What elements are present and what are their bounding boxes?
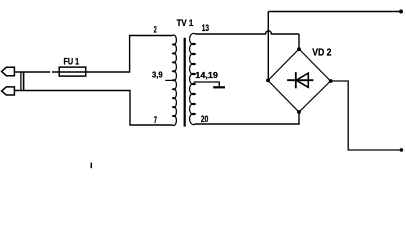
wire fuse to transformer corner [86, 36, 130, 73]
wire pin13 drop to bridge top [298, 34, 300, 49]
bridge rectifier VD2 diamond [268, 49, 331, 112]
wire bridge left corner up to top rail [267, 12, 269, 81]
svg-text:20: 20 [201, 114, 208, 124]
caption mark I [90, 163, 92, 169]
svg-text:FU 1: FU 1 [64, 57, 80, 67]
wire pin 13 with hop over DC rail [195, 31, 299, 34]
top rail to plus terminal [268, 11, 400, 13]
tap 14,19 wire to ground [194, 82, 220, 86]
junction dot left [266, 79, 270, 83]
tap 3,9 stub [165, 79, 173, 81]
wire pin 2 [129, 35, 173, 37]
junction dot bottom [297, 110, 301, 114]
junction dot top [297, 47, 301, 51]
wire pin 20 to bridge bottom [195, 112, 299, 124]
wire pin 7 [129, 124, 172, 126]
junction dot right [329, 79, 333, 83]
svg-text:TV 1: TV 1 [177, 17, 194, 28]
connector X1 top pin [2, 67, 15, 75]
wire bridge right corner to lower terminal [331, 81, 400, 150]
terminal dot bottom right [400, 148, 404, 152]
svg-text:7: 7 [154, 115, 157, 125]
transformer TV1 primary winding [173, 35, 177, 126]
svg-text:14,19: 14,19 [195, 71, 218, 80]
wire (after small gap) into fuse [52, 71, 86, 73]
connector X1 body bar 1 [20, 72, 22, 91]
diode symbol horizontal lead [287, 79, 313, 81]
terminal dot top right [399, 10, 403, 14]
fuse FU1 body [59, 67, 85, 76]
svg-text:2: 2 [154, 25, 157, 35]
svg-text:VD 2: VD 2 [312, 48, 332, 59]
wire bottom pin to corner [14, 91, 130, 126]
transformer TV1 secondary winding [190, 33, 196, 124]
diode triangle [296, 73, 308, 87]
connector X1 bottom pin [2, 87, 15, 95]
wire top pin to fuse [14, 71, 50, 73]
svg-text:13: 13 [202, 23, 209, 33]
svg-text:3,9: 3,9 [152, 70, 163, 79]
diode cathode bar [295, 72, 297, 88]
transformer core [184, 38, 186, 127]
connector X1 body bar 2 [23, 72, 25, 91]
ground bar [213, 86, 225, 88]
